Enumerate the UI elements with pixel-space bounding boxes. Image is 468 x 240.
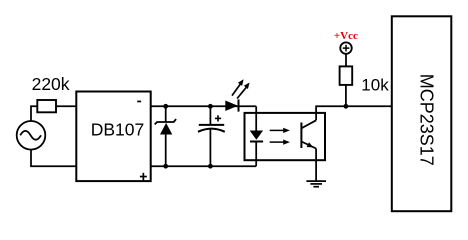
chip U2 MCP23S17 box <box>392 16 452 211</box>
wire R2 to Vcc terminal <box>345 54 347 67</box>
AC source V1 <box>17 121 46 150</box>
wire bottom rail <box>151 165 257 167</box>
pin mark plus <box>140 173 147 181</box>
wire node to R2 <box>345 85 347 106</box>
node capacitor top <box>208 104 213 109</box>
svg-text:DB107: DB107 <box>91 119 145 139</box>
optocoupler U1 box <box>245 113 326 160</box>
zener diode D1 <box>155 106 176 166</box>
resistor R2 <box>340 66 353 85</box>
opto light arrow 1 <box>270 128 290 133</box>
LED arrow 2 <box>237 83 250 99</box>
resistor R1 <box>37 100 56 112</box>
capacitor plus mark <box>215 115 221 121</box>
LED arrow 1 <box>232 79 244 95</box>
capacitor C1 <box>198 106 225 166</box>
node collector rail <box>344 104 349 109</box>
ground <box>306 181 326 187</box>
pin mark minus <box>137 101 141 103</box>
wire source bottom to DB107 <box>31 150 76 167</box>
wire R1 to DB107 <box>56 105 76 107</box>
opto light arrow 2 <box>270 140 290 145</box>
wire top rail <box>151 105 257 107</box>
wire rail corner into opto <box>255 106 257 130</box>
Vcc terminal <box>340 42 352 54</box>
phototransistor Q1 <box>301 120 316 148</box>
LED D2 <box>225 99 238 111</box>
svg-text:+Vcc: +Vcc <box>334 30 358 42</box>
wire collector up and rail to chip <box>316 106 392 120</box>
wire emitter down to ground <box>315 149 317 182</box>
svg-text:220k: 220k <box>32 74 70 94</box>
node zener bottom <box>163 164 168 169</box>
svg-text:MCP23S17: MCP23S17 <box>417 74 437 166</box>
node zener top <box>163 104 168 109</box>
wire source top to R1 <box>31 106 37 121</box>
svg-text:10k: 10k <box>361 76 389 95</box>
bridge rectifier DB107 <box>76 92 150 182</box>
node capacitor bottom <box>208 164 213 169</box>
opto LED <box>250 131 263 167</box>
